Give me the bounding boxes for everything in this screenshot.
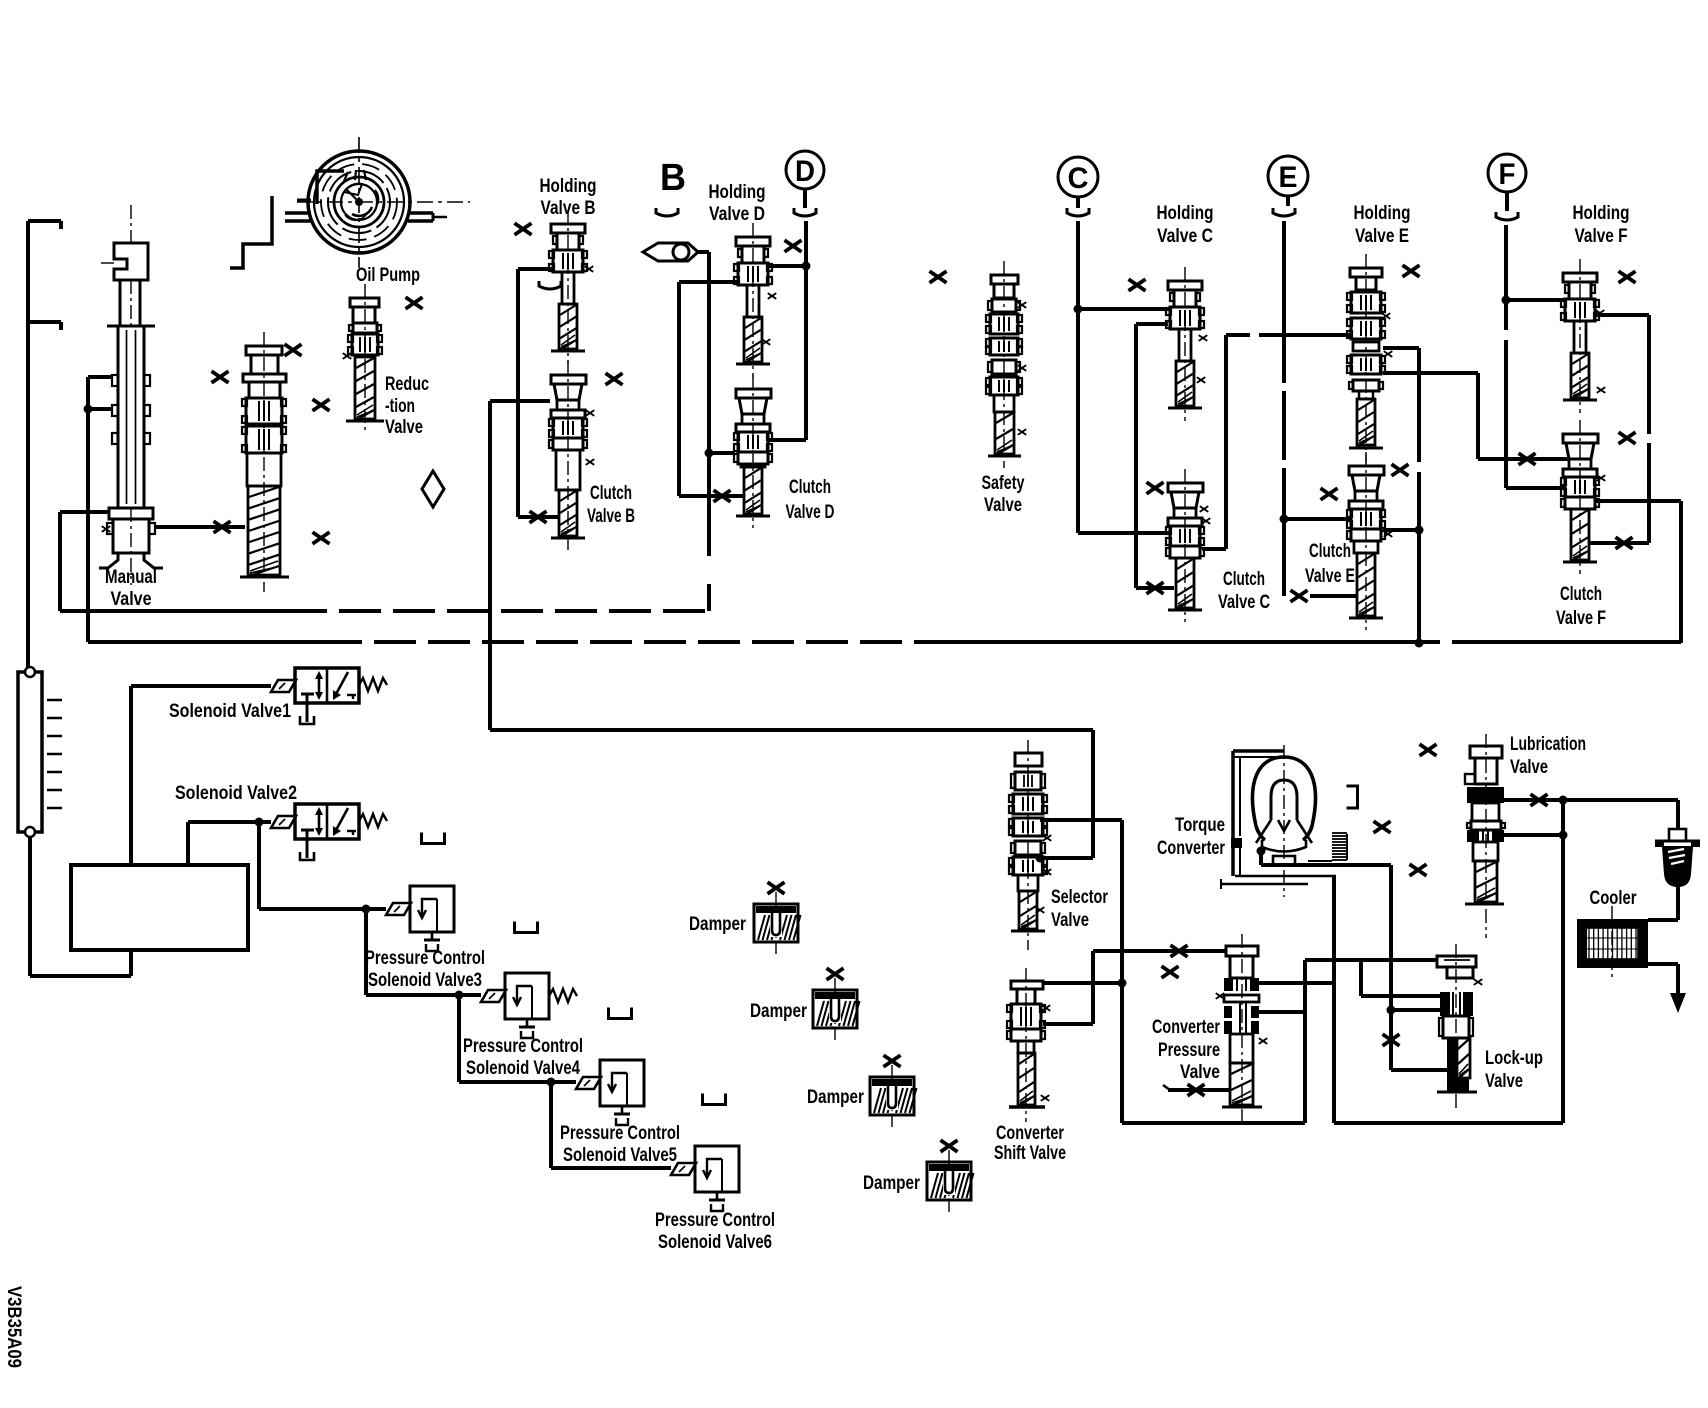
converter shift valve bbox=[1007, 968, 1050, 1122]
wire clutch valve F right port to main bus bbox=[1595, 501, 1681, 643]
dish symbol below B bbox=[656, 208, 678, 216]
dish symbol below C bbox=[1067, 208, 1089, 216]
label Clutch Valve E bbox=[1305, 541, 1355, 587]
svg-text:Damper: Damper bbox=[863, 1173, 920, 1194]
junction bbox=[1118, 979, 1127, 988]
bus B (line pressure) long horizontal bbox=[88, 640, 1681, 644]
orifice X bbox=[1531, 794, 1548, 806]
orifice X bbox=[1188, 1084, 1205, 1096]
torque converter bbox=[1221, 745, 1347, 897]
svg-text:Holding: Holding bbox=[540, 176, 597, 197]
label Torque Converter bbox=[1157, 815, 1225, 859]
label Lubrication Valve bbox=[1510, 734, 1586, 778]
svg-text:-tion: -tion bbox=[385, 396, 415, 417]
svg-text:Reduc: Reduc bbox=[385, 374, 429, 395]
junction bbox=[1559, 796, 1568, 805]
wire holding valve C left down to clutch valve C spring with orifice bbox=[1136, 324, 1174, 588]
orifice X above damper 2 bbox=[827, 968, 844, 980]
controller box bbox=[71, 865, 248, 950]
manual valve MV bbox=[99, 205, 163, 585]
wire clutch valve C right up to holding valve E left bbox=[1202, 335, 1351, 549]
dish symbol below F bbox=[1496, 212, 1518, 220]
wire solenoid valve 2 to controller bbox=[188, 822, 271, 865]
damper 1 bbox=[754, 892, 801, 954]
solenoid valve 2 bbox=[271, 804, 387, 860]
clutch valve B bbox=[549, 361, 587, 550]
tiny orifice x clutch valve B right ports bbox=[586, 410, 595, 465]
clutch valve F bbox=[1561, 420, 1599, 574]
circled letter C bbox=[1058, 157, 1098, 197]
svg-text:Pressure Control: Pressure Control bbox=[560, 1123, 680, 1144]
wire torque converter to lock-up valve bbox=[1261, 851, 1391, 1010]
diamond marker bbox=[422, 471, 444, 507]
junction bbox=[1280, 515, 1289, 524]
wire solenoid valve 1 to controller bbox=[131, 686, 271, 865]
svg-text:Converter: Converter bbox=[1157, 838, 1225, 859]
svg-text:Holding: Holding bbox=[1157, 203, 1214, 224]
wire holding valve E right port2 to clutch valve F left with orifice bbox=[1383, 373, 1569, 459]
oil pump left port lines bbox=[230, 196, 311, 268]
orifice X right of holding valve D bbox=[785, 240, 802, 252]
svg-text:Valve C: Valve C bbox=[1218, 592, 1270, 613]
pressure control solenoid valve 4 bbox=[481, 973, 577, 1038]
svg-text:Holding: Holding bbox=[709, 182, 766, 203]
orifice X left of lubrication valve bbox=[1420, 744, 1437, 756]
label Safety Valve bbox=[982, 473, 1025, 516]
clutch valve D bbox=[734, 375, 772, 528]
svg-text:Valve E: Valve E bbox=[1355, 226, 1409, 247]
svg-text:Shift Valve: Shift Valve bbox=[994, 1143, 1066, 1164]
filter (screen) right bbox=[1655, 829, 1700, 886]
svg-text:Valve: Valve bbox=[1051, 910, 1089, 931]
clutch valve E bbox=[1347, 452, 1385, 630]
tiny orifice x holding valve B right bbox=[585, 266, 594, 272]
svg-text:D: D bbox=[795, 155, 815, 188]
wire C feed bbox=[1078, 197, 1169, 533]
junction bbox=[84, 405, 93, 414]
svg-text:Converter: Converter bbox=[996, 1123, 1064, 1144]
svg-text:Solenoid Valve1: Solenoid Valve1 bbox=[169, 701, 291, 722]
label Selector Valve bbox=[1051, 887, 1108, 931]
strainer (suction filter) bbox=[18, 667, 62, 837]
junction bbox=[1074, 305, 1083, 314]
svg-text:V3B35A09: V3B35A09 bbox=[3, 1286, 24, 1368]
svg-text:Valve E: Valve E bbox=[1305, 566, 1355, 587]
lubrication valve bbox=[1465, 734, 1505, 938]
svg-text:Safety: Safety bbox=[982, 473, 1025, 494]
wire lock-up valve left ports bbox=[1361, 960, 1447, 1070]
tiny orifice x holding valve F bbox=[1596, 310, 1606, 393]
svg-text:Pressure: Pressure bbox=[1158, 1040, 1220, 1061]
label Holding Valve D bbox=[709, 182, 766, 225]
svg-text:Holding: Holding bbox=[1354, 203, 1411, 224]
holding valve F bbox=[1561, 259, 1599, 413]
svg-text:Valve C: Valve C bbox=[1157, 226, 1213, 247]
svg-text:C: C bbox=[1068, 162, 1089, 195]
label Clutch Valve D bbox=[786, 477, 835, 523]
svg-text:Clutch: Clutch bbox=[1223, 569, 1265, 590]
selector valve bbox=[1009, 740, 1051, 950]
wire solenoid valve2 branch to pressure control solenoid valve 3 bbox=[259, 822, 386, 909]
orifice X below right of torque converter bbox=[1410, 864, 1427, 876]
orifice X left of clutch valve E bbox=[1321, 488, 1338, 500]
label Pressure Control Solenoid Valve5 bbox=[560, 1123, 680, 1166]
label Lock-up Valve bbox=[1485, 1048, 1543, 1092]
orifice X bbox=[714, 490, 731, 502]
junction bbox=[362, 905, 371, 914]
orifice X bbox=[214, 521, 231, 533]
svg-text:Selector: Selector bbox=[1051, 887, 1108, 908]
junction bbox=[1415, 526, 1424, 535]
wire converter shift valve right port to converter pressure valve top with orifice bbox=[1043, 951, 1226, 1024]
exhaust bracket near pcsv3 bbox=[515, 922, 538, 933]
pressure regulator valve spool bbox=[240, 332, 289, 592]
orifice X left of clutch valve C cap bbox=[1147, 482, 1164, 494]
tiny orifice x clutch valve F bbox=[1597, 475, 1606, 481]
svg-text:Solenoid Valve3: Solenoid Valve3 bbox=[368, 970, 482, 991]
label Holding Valve F bbox=[1573, 203, 1630, 247]
dish symbol below E bbox=[1273, 208, 1295, 216]
svg-text:Valve: Valve bbox=[1510, 757, 1548, 778]
svg-text:Manual: Manual bbox=[105, 567, 157, 588]
label Clutch Valve F bbox=[1556, 584, 1606, 629]
wire D node to holding valve D right and clutch valve D right bbox=[767, 266, 806, 440]
orifice X left of holding valve C bbox=[1129, 279, 1146, 291]
orifice X right of clutch valve B cap bbox=[606, 373, 623, 385]
holding valve D bbox=[734, 223, 772, 377]
svg-text:Clutch: Clutch bbox=[1309, 541, 1351, 562]
svg-text:E: E bbox=[1279, 161, 1298, 194]
label Reduction Valve bbox=[385, 374, 429, 438]
svg-text:Damper: Damper bbox=[807, 1087, 864, 1108]
wire clutch valve B flange to selector valve (long route) bbox=[490, 401, 1093, 858]
orifice X bbox=[1519, 453, 1536, 465]
orifice X bbox=[1171, 945, 1188, 957]
holding valve B bbox=[549, 210, 587, 364]
damper 4 bbox=[927, 1150, 974, 1212]
svg-text:Cooler: Cooler bbox=[1590, 888, 1637, 909]
svg-text:Valve B: Valve B bbox=[587, 506, 635, 527]
orifice X right of reduction valve bbox=[406, 297, 423, 309]
svg-text:Damper: Damper bbox=[689, 914, 746, 935]
junction bbox=[1415, 639, 1424, 648]
wire holding valve E right to bus with branch to clutch valve E right bbox=[1383, 348, 1419, 643]
converter pressure valve bbox=[1216, 934, 1268, 1122]
tiny orifice x holding valve D ports bbox=[762, 293, 777, 345]
svg-text:Holding: Holding bbox=[1573, 203, 1630, 224]
wire with orifice below converter pressure valve label bbox=[1163, 1085, 1230, 1090]
label Holding Valve B bbox=[540, 176, 597, 219]
svg-text:Clutch: Clutch bbox=[1560, 584, 1602, 605]
pressure control solenoid valve 5 bbox=[576, 1060, 644, 1125]
label Pressure Control Solenoid Valve3 bbox=[365, 948, 485, 991]
label Clutch Valve C bbox=[1218, 569, 1270, 613]
svg-text:Valve D: Valve D bbox=[709, 204, 765, 225]
svg-text:Clutch: Clutch bbox=[590, 483, 632, 504]
orifice X bbox=[530, 511, 547, 523]
svg-text:Valve: Valve bbox=[385, 417, 423, 438]
svg-text:F: F bbox=[1499, 158, 1516, 191]
svg-text:Valve: Valve bbox=[111, 589, 152, 610]
wire D feed down bbox=[805, 189, 806, 266]
orifice X above damper 4 bbox=[941, 1140, 958, 1152]
wire bottom junction box bbox=[1122, 1121, 1563, 1125]
svg-text:Solenoid Valve2: Solenoid Valve2 bbox=[175, 783, 297, 804]
svg-text:Pressure Control: Pressure Control bbox=[463, 1036, 583, 1057]
wire holding valve F right down to clutch valve F spring with orifice bbox=[1590, 315, 1649, 543]
pressure control solenoid valve 6 bbox=[671, 1146, 739, 1211]
svg-text:Solenoid Valve6: Solenoid Valve6 bbox=[658, 1232, 772, 1253]
svg-text:Lock-up: Lock-up bbox=[1485, 1048, 1543, 1069]
orifice X left of safety valve bbox=[930, 271, 947, 283]
wire E feed down bbox=[1284, 196, 1357, 596]
orifice X right of clutch valve F cap bbox=[1619, 432, 1636, 444]
junction torque converter drain bbox=[1257, 847, 1266, 856]
bus A (drain) dashed horizontal bbox=[60, 609, 709, 613]
orifice X near clutch valve E cap bbox=[1392, 464, 1409, 476]
orifice X right of holding valve F bbox=[1619, 271, 1636, 283]
dish symbol left of holding valve D bbox=[539, 281, 561, 289]
junction bbox=[1559, 831, 1568, 840]
orifice X floating bbox=[1162, 966, 1179, 978]
holding valve E bbox=[1347, 254, 1385, 463]
wire to pressure control solenoid valve 4 bbox=[366, 909, 481, 995]
svg-text:Pressure Control: Pressure Control bbox=[365, 948, 485, 969]
wire lubrication valve second port / down to junction box bbox=[1504, 800, 1563, 1123]
svg-text:Valve B: Valve B bbox=[541, 198, 596, 219]
orifice X left of holding valve B bbox=[515, 223, 532, 235]
wire lock-up valve cap to junction box bbox=[1305, 960, 1437, 1123]
oil pump inlet bracket bbox=[317, 171, 344, 204]
damper 2 bbox=[813, 978, 860, 1040]
wire to pressure control solenoid valve 6 bbox=[551, 1082, 671, 1168]
wire selector valve right port to converter pressure area bbox=[1040, 820, 1122, 1123]
wire lubrication valve right to filter with orifice bbox=[1504, 800, 1678, 829]
junction bbox=[802, 262, 811, 271]
orifice X right of holding valve E cap bbox=[1403, 265, 1420, 277]
wire manual valve lower-left port down to bus A bbox=[60, 512, 109, 611]
wire cooler outlet with arrow bbox=[1648, 964, 1686, 1013]
clutch valve C bbox=[1166, 469, 1204, 622]
label Manual Valve bbox=[105, 567, 157, 610]
label Holding Valve C bbox=[1157, 203, 1214, 247]
svg-text:B: B bbox=[660, 157, 686, 199]
label Pressure Control Solenoid Valve4 bbox=[463, 1036, 583, 1079]
label Holding Valve E bbox=[1354, 203, 1411, 247]
orifice X above damper 1 bbox=[768, 882, 785, 894]
oil pump right port lines bbox=[408, 213, 447, 221]
wire F feed down bbox=[1506, 192, 1566, 488]
svg-text:Valve D: Valve D bbox=[786, 502, 835, 523]
label Clutch Valve B bbox=[587, 483, 635, 527]
tiny orifice x clutch valve E bbox=[1384, 531, 1393, 537]
label Converter Pressure Valve bbox=[1152, 1017, 1220, 1083]
svg-text:Valve F: Valve F bbox=[1575, 226, 1628, 247]
circled letter D bbox=[786, 151, 824, 189]
circled letter E bbox=[1268, 156, 1308, 196]
svg-text:Clutch: Clutch bbox=[789, 477, 831, 498]
wire left supply vertical with port brackets bbox=[28, 221, 61, 668]
wire node B to clutch valve D and bus A bbox=[698, 252, 735, 611]
solenoid valve 1 bbox=[271, 668, 387, 724]
safety valve bbox=[986, 261, 1026, 468]
holding valve C bbox=[1166, 267, 1204, 421]
pressure control solenoid valve 3 bbox=[386, 886, 454, 951]
orifice X right of torque converter bbox=[1374, 821, 1391, 833]
svg-text:Solenoid Valve4: Solenoid Valve4 bbox=[466, 1058, 580, 1079]
tiny orifice x holding valve C right bbox=[1197, 335, 1208, 383]
junction bbox=[255, 818, 264, 827]
wire manual valve left ports to supply bus bbox=[88, 377, 112, 642]
svg-text:Lubrication: Lubrication bbox=[1510, 734, 1586, 755]
svg-text:Torque: Torque bbox=[1175, 815, 1225, 836]
wire filter to cooler bbox=[1648, 886, 1678, 920]
lock-up valve bbox=[1437, 944, 1482, 1110]
reduction valve bbox=[343, 284, 384, 432]
junction bbox=[1502, 296, 1511, 305]
label Pressure Control Solenoid Valve6 bbox=[655, 1210, 775, 1253]
wire holding valve D left down to clutch valve D left with orifice bbox=[679, 282, 744, 496]
junction bbox=[547, 1078, 556, 1087]
orifice X bbox=[1616, 537, 1633, 549]
cooler bbox=[1577, 906, 1648, 980]
tiny orifice x holding valve E bbox=[1382, 313, 1393, 357]
orifice X bbox=[1147, 582, 1164, 594]
svg-text:Valve: Valve bbox=[984, 495, 1022, 516]
junction lock-up left port bbox=[1387, 1006, 1396, 1015]
orifice X marks around regulator bbox=[212, 344, 330, 544]
wire holding valve B left port down to clutch valve B spring with orifice bbox=[518, 269, 559, 517]
orifice X bbox=[1383, 1034, 1400, 1046]
svg-text:Converter: Converter bbox=[1152, 1017, 1220, 1038]
junction bbox=[455, 991, 464, 1000]
orifice X above damper 3 bbox=[884, 1055, 901, 1067]
wire converter shift valve cap to junction bbox=[1043, 981, 1122, 985]
oil pump bbox=[297, 137, 470, 268]
svg-text:Oil Pump: Oil Pump bbox=[356, 265, 420, 286]
junction bbox=[705, 449, 714, 458]
wire converter pressure valve right ports to torque converter bbox=[1258, 983, 1334, 1012]
pointer symbol node B feed bbox=[643, 243, 698, 261]
svg-text:Valve: Valve bbox=[1180, 1062, 1220, 1083]
wire to pressure control solenoid valve 5 bbox=[459, 995, 576, 1082]
svg-text:Valve F: Valve F bbox=[1556, 608, 1606, 629]
exhaust bracket near pcsv4 bbox=[609, 1008, 632, 1019]
dish symbol below D bbox=[794, 208, 816, 216]
svg-text:Damper: Damper bbox=[750, 1001, 807, 1022]
svg-text:Solenoid Valve5: Solenoid Valve5 bbox=[563, 1145, 677, 1166]
wire strainer bottom to ECU bottom bbox=[30, 837, 131, 976]
wire torque converter return down bbox=[1332, 876, 1336, 1123]
label Converter Shift Valve bbox=[994, 1123, 1066, 1164]
bracket symbol right of torque converter bbox=[1347, 786, 1358, 808]
exhaust bracket near pcsv5 bbox=[703, 1094, 726, 1105]
exhaust bracket near solenoid valve2 bbox=[422, 833, 445, 844]
orifice X bbox=[1291, 590, 1308, 602]
svg-text:Pressure Control: Pressure Control bbox=[655, 1210, 775, 1231]
svg-text:Valve: Valve bbox=[1485, 1071, 1523, 1092]
damper 3 bbox=[870, 1065, 917, 1127]
wire manual valve right to regulator with orifice bbox=[155, 525, 245, 529]
circled letter F bbox=[1488, 154, 1526, 192]
junction selector right port bbox=[1036, 854, 1045, 863]
tiny orifice x clutch valve C bbox=[1200, 506, 1211, 524]
